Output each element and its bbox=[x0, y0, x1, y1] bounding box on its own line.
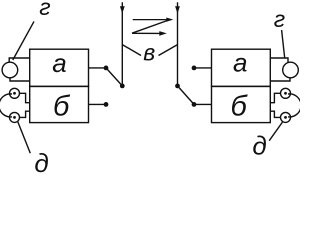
leader line д (left) bbox=[18, 121, 31, 153]
wire mic bottom lead (right) bbox=[270, 78, 290, 81]
radio wave zigzag top line bbox=[133, 19, 169, 21]
node а contact (left) bbox=[104, 66, 109, 71]
wire stub to б contact (left) bbox=[89, 103, 107, 105]
svg-text:г: г bbox=[39, 0, 50, 20]
svg-text:г: г bbox=[274, 6, 285, 32]
radio wave lower arrowhead bbox=[159, 31, 167, 36]
wire stub to а contact (left) bbox=[89, 67, 107, 69]
svg-text:д: д bbox=[34, 148, 48, 175]
leader line г (left) bbox=[13, 21, 34, 60]
headphone earpiece bottom (left) bbox=[10, 112, 20, 122]
switch blade (left) bbox=[106, 68, 122, 86]
headphone band arc (left) bbox=[0, 94, 12, 117]
wire mic top lead (left) bbox=[9, 58, 30, 62]
switch blade (right) bbox=[178, 86, 195, 105]
radio wave diagonal bbox=[132, 20, 169, 33]
leader line в from left antenna bbox=[122, 45, 141, 56]
svg-text:а: а bbox=[233, 48, 247, 78]
svg-text:в: в bbox=[143, 40, 155, 66]
wire headphone top lead (left) bbox=[20, 93, 30, 102]
wire headphone top lead (right) bbox=[270, 93, 280, 102]
leader line г (right) bbox=[282, 30, 285, 58]
leader line в from right antenna bbox=[159, 45, 178, 56]
wire mic bottom lead (left) bbox=[10, 78, 30, 81]
antenna feeder line (right) bbox=[177, 2, 179, 86]
wire headphone bottom lead (left) bbox=[20, 111, 30, 117]
svg-text:б: б bbox=[231, 90, 249, 122]
leader line д (right) bbox=[269, 122, 282, 141]
headphone earpiece top (right) bbox=[281, 88, 291, 98]
block б (right receiver) bbox=[212, 86, 271, 122]
wire stub to а contact (right) bbox=[194, 67, 212, 69]
headphone band arc (right) bbox=[288, 94, 301, 117]
antenna feeder line (left) bbox=[121, 2, 123, 86]
node а contact (right) bbox=[192, 66, 197, 71]
wire mic top lead (right) bbox=[270, 58, 288, 62]
svg-text:б: б bbox=[53, 91, 71, 123]
node antenna common (right) bbox=[175, 84, 180, 89]
node antenna common (left) bbox=[120, 84, 125, 89]
node б contact (left) bbox=[104, 102, 109, 107]
microphone (right) bbox=[283, 62, 299, 78]
wire headphone bottom lead (right) bbox=[270, 111, 280, 117]
node б contact (right) bbox=[192, 102, 197, 107]
arrowhead down on right antenna bbox=[175, 6, 180, 13]
radio wave upper arrowhead bbox=[166, 18, 173, 22]
microphone (left) bbox=[2, 62, 18, 78]
block а (left transmitter) bbox=[30, 49, 89, 86]
wire stub to б contact (right) bbox=[194, 103, 212, 105]
headphone earpiece bottom (right) bbox=[281, 112, 291, 122]
block а (right transmitter) bbox=[212, 49, 271, 86]
svg-text:а: а bbox=[52, 48, 66, 78]
block б (left receiver) bbox=[30, 86, 89, 122]
arrowhead down on left antenna bbox=[120, 6, 125, 13]
headphone earpiece top (left) bbox=[10, 88, 20, 98]
radio wave bottom line bbox=[132, 32, 161, 34]
svg-text:д: д bbox=[252, 130, 266, 160]
